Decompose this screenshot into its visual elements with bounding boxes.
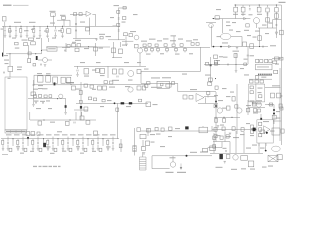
wire [166,47,168,48]
label L148 [38,85,43,86]
strip ticks [11,130,22,133]
label L145 [220,125,224,126]
wire [75,16,77,38]
resistor R88 [260,80,264,83]
wire enclosure bottom edge [141,70,201,72]
transistor Q13 [256,102,261,107]
label L70 [50,153,55,154]
wire [247,100,249,115]
label L135 [36,38,40,39]
wire [265,143,267,146]
wire long output [152,155,212,157]
wire top bus [2,25,120,27]
resistor R69 [104,81,107,84]
resistor R177 [232,127,235,131]
capacitor C35 [52,142,53,144]
wire vertical chain [118,8,120,41]
wire [120,42,122,47]
transistor Q5 [128,71,134,77]
wire [258,5,260,7]
capacitor C3 [26,30,27,32]
label L38 [5,63,9,64]
label L5 [106,36,112,37]
ground [236,47,239,49]
wire [151,51,153,53]
resistor R80 [273,61,277,64]
wire [28,98,66,100]
wire [198,102,218,104]
wire [157,51,159,53]
wire [77,72,79,74]
wire [72,139,74,146]
label +15V [279,2,286,3]
wire bus [30,119,96,121]
node N37 [102,138,103,139]
resistor R136 [86,120,90,124]
IC U5 [256,64,273,70]
resistor R17 [241,7,245,12]
resistor R67 [142,86,146,90]
resistor R3 [33,29,35,33]
wire [209,77,211,83]
label L87 [272,85,280,86]
wire [213,133,215,153]
node N22 [273,109,275,111]
capacitor C33 [22,142,23,144]
wire [184,47,186,48]
wire [120,139,122,152]
wire under U5 pins [255,75,272,77]
resistor R1 [9,29,11,33]
resistor R93 [214,105,217,108]
resistor R123 [34,95,37,98]
wire [267,5,269,7]
wire [235,12,237,19]
wire [204,63,220,65]
ground [47,149,50,151]
resistor R94 [227,106,231,110]
resistor R146 [17,140,19,144]
wire [20,26,22,28]
relay K2 box [8,66,13,71]
capacitor C17 [166,48,169,51]
label L178 [216,135,221,136]
wire [92,145,94,148]
node N8 [276,4,277,5]
wire enclosure right edge [200,47,202,71]
transistor Q7 [217,108,222,113]
capacitor C21 [40,64,41,66]
transistor Q12 [43,58,48,63]
node dark blob [129,102,132,104]
wire [119,7,127,9]
resistor R147 [32,140,34,144]
label L124 [268,104,273,105]
label L92 [222,108,227,109]
node N1 [9,26,10,27]
capacitor C5 [55,30,56,32]
label L27 [186,40,192,41]
node N30 [27,137,29,139]
dark blob [253,128,256,132]
relay K1 box [47,47,57,51]
wire [4,32,6,35]
node N5 [62,26,63,27]
node N38 [186,155,188,157]
label L29 [171,35,177,36]
resistor R101 [252,102,256,106]
wire [77,66,79,69]
wire [27,139,29,146]
wire [166,51,168,53]
wire [107,139,109,141]
ground [235,71,238,73]
label L182 [250,169,255,170]
label L13 [257,14,262,15]
resistor R127 [79,90,82,94]
label L142 [182,74,187,75]
resistor R110 [259,133,262,136]
resistor R10 [86,28,90,31]
capacitor C14 [145,48,148,51]
label L158 [70,134,76,135]
ground [76,75,79,77]
label L19 [262,25,267,26]
wire [107,66,109,78]
wire [215,131,217,142]
resistor R111 [251,125,254,129]
resistor R26 [280,30,284,35]
resistor R9 [79,13,82,16]
ground [46,36,49,38]
label L131 [128,80,133,81]
wire [57,139,59,146]
resistor R24 [266,18,270,22]
wire enclosure left drop [140,71,142,83]
label L62 [275,64,279,65]
wire [229,142,231,154]
resistor R29 [143,44,146,47]
ground [52,148,55,150]
label L157 [62,134,68,135]
resistor R74 [256,59,259,62]
IC U5 pins [259,74,271,76]
dark box [219,154,223,159]
resistor R129 [84,107,88,111]
resistor R38 [215,62,218,65]
node N23 [273,113,275,115]
resistor R163 [155,127,158,130]
ground [229,133,232,135]
label L40 [17,67,22,68]
wire right long vertical [280,52,282,145]
ground [61,36,64,38]
capacitor C31 [33,84,35,85]
resistor R124 [39,95,42,98]
label L130 [100,75,105,76]
wire [210,152,263,154]
ground [39,36,42,38]
wire [139,53,141,66]
label L100 [190,89,197,90]
node N31 [12,138,13,139]
label L15 [226,25,231,26]
wire mid bus right [140,46,210,48]
resistor R79 [279,57,283,60]
wire bias rail [212,18,250,20]
wire [249,5,251,7]
dark component [43,143,46,147]
node N11 [220,46,222,48]
wire [175,47,177,48]
wire opamp input [70,13,86,15]
capacitor C36 [67,142,68,144]
label L110 [57,131,62,132]
wire lower rail [70,84,146,86]
ground [32,149,35,151]
node N26 [114,102,116,104]
label L132 [76,89,81,90]
resistor R170 [277,155,282,160]
label L118 [232,22,236,23]
capacitor C6 [75,23,76,25]
resistor R72 [214,60,217,64]
resistor R73 [234,54,237,58]
label L101 [153,104,158,105]
label L128 [92,151,96,152]
label L151 [14,134,20,135]
resistor R168 [142,147,146,151]
wire [4,26,6,29]
resistor R84 [250,91,253,94]
diode D2 [228,45,231,48]
title text [3,5,12,6]
label L66 [137,62,141,63]
wire [43,139,45,146]
resistor R53 [75,48,79,51]
wire [275,12,277,38]
resistor R99 [220,136,223,139]
capacitor C23 [77,70,78,72]
label L9 [122,45,127,46]
label L32 [205,75,211,76]
label L75 [252,145,257,146]
ground [54,36,57,38]
connector J3 ladder [140,157,147,170]
label L95 [256,100,262,101]
resistor R114 [166,84,171,87]
wire stub [52,137,54,139]
label L34 [15,48,19,49]
label L177 [241,168,246,169]
resistor R82 [256,76,259,79]
resistor R45 [24,43,28,46]
resistor R60 [113,69,117,74]
capacitor C26 [244,63,247,65]
resistor R151 [92,140,94,144]
wire [38,59,43,61]
wire [211,26,213,48]
wire [235,131,237,153]
wire [2,145,4,148]
wire [172,156,174,162]
transistor Q11 [233,155,238,160]
resistor R13 [117,11,120,14]
wire [69,20,71,26]
resistor R176 [222,127,225,131]
resistor R108 [259,122,262,125]
label L31 [162,77,171,78]
ground [26,36,29,38]
label L20 [244,30,249,31]
capacitor C27 [247,55,248,57]
capacitor C22 [3,72,4,74]
wire [235,65,237,71]
label L35 [72,42,76,43]
label L72 [150,134,155,135]
label L57 [255,31,260,32]
resistor R173 [281,129,284,133]
label L156 [54,134,60,135]
wire [249,78,272,80]
wire [206,21,216,23]
wire [52,139,54,142]
node N39 [265,150,267,152]
wire [48,38,50,42]
wire [272,58,281,60]
label L153 [30,134,36,135]
wire [173,36,175,44]
label L6 [99,34,105,35]
resistor R34 [180,44,183,47]
resistor R33 [172,44,175,47]
wire lower rail [73,38,97,40]
connector J1 [3,17,7,22]
resistor R21 [215,16,219,19]
wire [265,87,281,89]
label L84 [261,77,266,78]
resistor R160 [119,144,122,148]
node dark blob [121,102,125,104]
label L39 [8,78,11,79]
label L136 [52,38,56,39]
node N35 [72,138,73,139]
label L119 [217,36,221,37]
resistor R42 [208,82,212,85]
resistor R134 [38,121,42,125]
wire [97,139,99,142]
node N14 [9,53,10,54]
label L43 [46,73,51,74]
wire [177,83,179,91]
node N13 [215,78,216,79]
dark mark [210,64,212,66]
resistor R104 [246,108,249,112]
resistor R116 [189,96,193,100]
footer text [39,166,42,167]
ground [67,148,70,150]
resistor R178 [241,128,244,132]
capacitor C24 [117,76,118,78]
wire [248,107,265,109]
wire [95,14,97,26]
ground [7,148,10,150]
resistor R179 [260,130,265,134]
wire [125,36,127,43]
wire [175,51,177,53]
wire [82,145,84,148]
label L129 [84,76,89,77]
resistor R68 [96,69,100,73]
resistor R4 [46,29,48,33]
resistor R109 [259,128,262,131]
resistor R11 [100,36,103,39]
wire [112,139,114,142]
relay K3 box [241,156,248,161]
wire [107,145,109,148]
capacitor C18 [175,48,178,51]
node N34 [57,138,58,139]
label strip text [6,131,26,132]
ground [22,148,25,150]
resistor R126 [49,95,52,98]
label T1 [50,11,56,12]
label L102 [107,100,112,101]
label L50 [75,40,81,41]
dark tick [2,53,3,57]
label L76 [270,131,275,132]
resistor R43 [28,38,33,40]
wire to T1 [53,16,55,27]
label L155 [46,134,52,135]
ground [9,36,12,38]
resistor R92 [232,97,235,102]
wire stub [97,137,99,139]
node N21 [231,117,232,118]
wire [47,139,49,141]
node N7 [259,4,260,5]
label L169 [166,172,174,173]
wire [259,28,261,47]
wire [52,145,54,148]
node N28 [43,119,44,120]
wire [15,32,17,35]
resistor R90 [277,93,281,98]
wire [75,112,77,120]
wire [67,145,69,148]
label L162 [102,134,108,135]
label L4 [80,22,85,23]
capacitor C33 [61,77,65,83]
wire [102,139,104,146]
resistor R18 [257,7,261,12]
resistor R30 [148,44,151,47]
wire [17,145,19,148]
wire [151,47,153,48]
wire [142,152,144,157]
ground [4,36,7,38]
resistor R97 [223,119,226,123]
wire [205,98,207,104]
capacitor C8 [118,18,120,19]
resistor R23 [250,44,254,49]
wire [89,18,91,35]
label L179 [223,148,227,149]
label L2 [1,29,4,30]
wire [152,168,170,170]
wire mid rail [74,65,146,67]
label L147 [246,123,250,124]
